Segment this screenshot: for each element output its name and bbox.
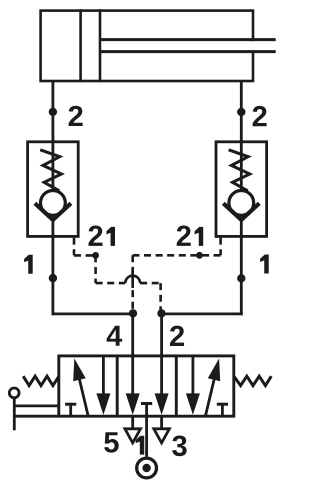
- label 2 (right cylinder port): [253, 106, 267, 126]
- pilot line 21 of V1: vertical down: [94, 255, 97, 283]
- pilot line 21 of V1: stub down from valve box: [73, 238, 76, 256]
- node junction dot on V2 port 1 wire: [237, 274, 245, 282]
- node port 4 junction dot: [129, 309, 137, 317]
- node junction dot on left port 2 wire: [49, 108, 57, 116]
- wire valve port 1 down to source: [145, 404, 148, 457]
- valve U1 right box: flow arrow 4->5 (down): [186, 357, 200, 415]
- label 21 (left pilot port): [89, 225, 115, 245]
- wire V2 port 1 to valve port 2 (horizontal): [161, 312, 243, 315]
- pilot line 21 of V1: horizontal after hop: [140, 282, 161, 285]
- wire cylinder left port to check valve V1 port 2: [52, 81, 55, 142]
- valve U1 left box: blocked port 5 (T symbol): [65, 404, 76, 415]
- pilot line 21 of V1: vertical down to port 2 node: [159, 283, 162, 312]
- valve U1 left box: flow arrow 1->4 (diagonal): [73, 358, 88, 415]
- label 2 (valve port): [170, 326, 184, 346]
- valve U1 right box: blocked port 3 (T symbol): [217, 404, 228, 415]
- pilot line 21 of V2: vertical down to port 4 node: [131, 255, 134, 312]
- check valve V2 (pilot operated, right): [216, 142, 267, 237]
- wire cylinder right port to check valve V2 port 2: [240, 81, 243, 142]
- label 4 (valve port): [107, 326, 123, 346]
- cylinder A1 piston rod: [100, 40, 276, 52]
- spring return (right side of U1): [234, 376, 271, 385]
- check valve V1 (pilot operated, left): [28, 142, 79, 237]
- lever actuator with knob (left of U1): [9, 388, 59, 430]
- label 1 (right check valve port): [260, 255, 269, 274]
- label 2 (left cylinder port): [69, 106, 83, 126]
- pilot line 21 of V1: horizontal toward center: [96, 282, 126, 285]
- label 5 (valve port): [104, 432, 119, 452]
- valve U1 5/3-way body (three position boxes): [59, 356, 234, 416]
- compressed air source P: [137, 458, 157, 478]
- exhaust port 3 (open triangle): [154, 417, 170, 443]
- pilot line crossover hop (arc over port-4 pilot line): [125, 276, 140, 283]
- node pilot right dot: [196, 252, 203, 259]
- valve U1 middle box: flow arrow 4->5 (down): [126, 357, 140, 415]
- wire check valve V2 port 1 down: [240, 236, 243, 315]
- pilot line 21 of V1: horizontal to node: [74, 254, 93, 257]
- spring return (left side of U1): [23, 376, 59, 385]
- label 1 (valve port): [136, 436, 145, 455]
- wire valve port 2 up: [160, 314, 163, 357]
- valve U1 left box: flow arrow 2->3 (down): [96, 357, 110, 415]
- node pilot left dot: [92, 252, 99, 259]
- wire valve port 4 up: [131, 314, 134, 357]
- wire check valve V1 port 1 down: [52, 236, 55, 315]
- exhaust port 5 (open triangle): [125, 417, 141, 443]
- valve U1 middle box: blocked port 1 (T symbol): [141, 402, 152, 405]
- cylinder A1 body: [41, 9, 253, 82]
- node junction dot on right port 2 wire: [237, 108, 245, 116]
- pilot line 21 of V2: stub down from valve box: [219, 238, 222, 256]
- label 3 (valve port): [172, 435, 186, 456]
- node junction dot on V1 port 1 wire: [49, 274, 57, 282]
- pilot line 21 of V2: solid segment through hop: [131, 269, 134, 289]
- pilot line 21 of V2: horizontal through node to center: [133, 254, 221, 257]
- valve U1 right box: flow arrow 1->2 (diagonal): [206, 358, 221, 415]
- valve U1 middle box: flow arrow 2->3 (down): [155, 357, 169, 415]
- wire V1 port 1 to valve port 4 (horizontal): [52, 312, 135, 315]
- label 21 (right pilot port): [177, 225, 203, 245]
- node port 2 junction dot: [157, 309, 165, 317]
- label 1 (left check valve port): [24, 255, 33, 274]
